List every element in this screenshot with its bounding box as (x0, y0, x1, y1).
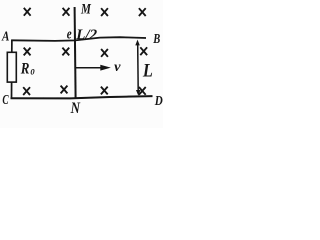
svg-text:L: L (142, 62, 153, 82)
svg-text:D: D (154, 93, 163, 108)
svg-text:C: C (2, 93, 9, 108)
svg-text:R: R (20, 61, 30, 78)
svg-text:A: A (1, 29, 9, 44)
svg-text:B: B (153, 31, 161, 46)
svg-text:e: e (67, 27, 72, 43)
svg-text:L/2: L/2 (75, 27, 97, 43)
svg-text:M: M (80, 1, 92, 17)
svg-text:0: 0 (30, 66, 35, 76)
svg-text:N: N (70, 100, 81, 117)
svg-text:v: v (114, 59, 121, 74)
